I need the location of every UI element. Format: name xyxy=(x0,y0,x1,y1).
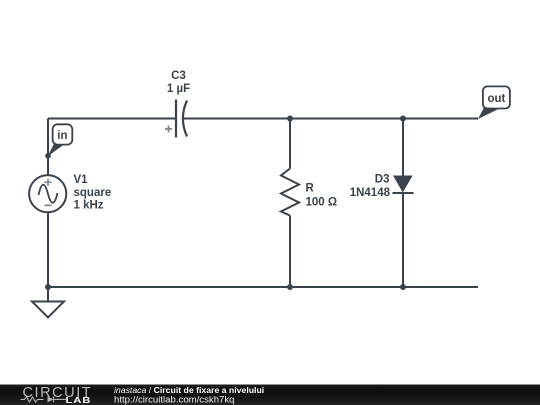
resistor R xyxy=(281,169,299,216)
wire top-left segment (in node to C3 plate) xyxy=(48,118,176,120)
svg-text:C3: C3 xyxy=(171,70,186,82)
svg-text:LAB: LAB xyxy=(66,396,92,405)
node dot ground rail left xyxy=(45,284,51,290)
svg-text:in: in xyxy=(57,130,67,142)
svg-text:V1: V1 xyxy=(74,174,89,186)
node dot ground rail D3 xyxy=(400,284,406,290)
diode D3 xyxy=(393,176,414,194)
svg-text:1N4148: 1N4148 xyxy=(350,187,391,199)
svg-text:1 µF: 1 µF xyxy=(167,83,190,95)
svg-text:out: out xyxy=(487,93,505,105)
label R value xyxy=(306,183,338,209)
ground symbol xyxy=(32,302,64,318)
wire top-right segment (C3 to out node) xyxy=(184,118,479,120)
footer bar xyxy=(0,385,540,405)
wire left vertical (in corner down to V1 top) xyxy=(47,119,49,176)
wire bottom rail xyxy=(48,286,478,288)
node dot top D3 xyxy=(400,116,406,122)
label D3 value xyxy=(350,173,391,199)
svg-text:R: R xyxy=(306,183,315,195)
label C3 value xyxy=(167,70,190,95)
wire resistor column bottom xyxy=(289,216,291,288)
wire ground stem xyxy=(47,287,49,302)
node dot top R xyxy=(287,116,293,122)
svg-text:100 Ω: 100 Ω xyxy=(306,196,338,208)
svg-text:http://circuitlab.com/cskh7kq: http://circuitlab.com/cskh7kq xyxy=(114,395,235,405)
capacitor C3 xyxy=(165,100,187,138)
label V1 value xyxy=(74,174,112,212)
voltage source V1 xyxy=(29,175,66,212)
svg-text:1 kHz: 1 kHz xyxy=(74,200,104,212)
CircuitLab logo squiggle (resistor + diode) xyxy=(21,397,67,403)
node dot ground rail R xyxy=(287,284,293,290)
svg-text:inastaca / Circuit de fixare a: inastaca / Circuit de fixare a nivelului xyxy=(114,385,264,395)
svg-text:square: square xyxy=(74,187,112,199)
wire V1 bottom to ground rail xyxy=(47,212,49,287)
node flag in xyxy=(48,124,73,156)
wire diode column bottom xyxy=(402,193,404,287)
wire diode column top xyxy=(402,119,404,176)
wire resistor column top xyxy=(289,119,291,169)
svg-text:D3: D3 xyxy=(375,173,390,185)
node dot in xyxy=(45,153,51,159)
CircuitLab logo diode triangle xyxy=(48,396,54,402)
node flag out xyxy=(478,86,510,119)
